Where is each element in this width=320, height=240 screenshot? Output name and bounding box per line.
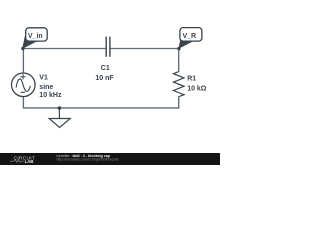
svg-text:V1: V1 [39,75,48,82]
svg-text:C1: C1 [101,65,110,72]
svg-text:10 kΩ: 10 kΩ [187,85,207,92]
wire: V_R node down to R1 top [178,49,180,72]
ground stub wire [58,108,60,118]
capacitor C1 left plate [105,37,107,57]
voltage source V1 circle [11,73,35,97]
wire: V1 bottom terminal down and corner [22,97,24,108]
svg-text:V_in: V_in [28,33,43,40]
svg-text:sine: sine [39,84,53,91]
svg-text:10 kHz: 10 kHz [39,92,62,99]
wire: R1 bottom up from corner [178,97,180,109]
node V_R dot [177,47,180,50]
ground junction dot [58,106,62,110]
voltage source V1 plus sign [20,74,25,79]
node label V_in pointer tail [22,36,37,49]
wire top-left: V_in node to C1 left plate [23,48,106,50]
wire: V_in node down to V1 top terminal [22,49,24,74]
ground triangle [49,119,70,128]
resistor R1 zigzag [174,72,185,97]
svg-text:V_R: V_R [183,33,197,40]
node label V_R pointer tail [178,36,193,49]
node V_in dot [21,47,24,50]
wire top-right: C1 right plate to V_R node [110,48,178,50]
svg-text:R1: R1 [187,76,196,83]
svg-text:10 nF: 10 nF [95,75,114,82]
svg-text:LAB: LAB [25,159,34,164]
voltage source V1 minus sign [21,91,25,93]
node label V_in box [26,28,48,41]
node label V_R box [180,28,202,41]
svg-text:http://circuitlab.com/c/7mgh5m: http://circuitlab.com/c/7mgh5m45w2vb/ [57,158,119,162]
voltage source V1 sine glyph [16,79,30,92]
footer bar [0,153,220,165]
wire bottom: left corner to right corner [23,107,180,109]
capacitor C1 right plate [109,37,111,57]
footer logo waveform [10,160,24,163]
